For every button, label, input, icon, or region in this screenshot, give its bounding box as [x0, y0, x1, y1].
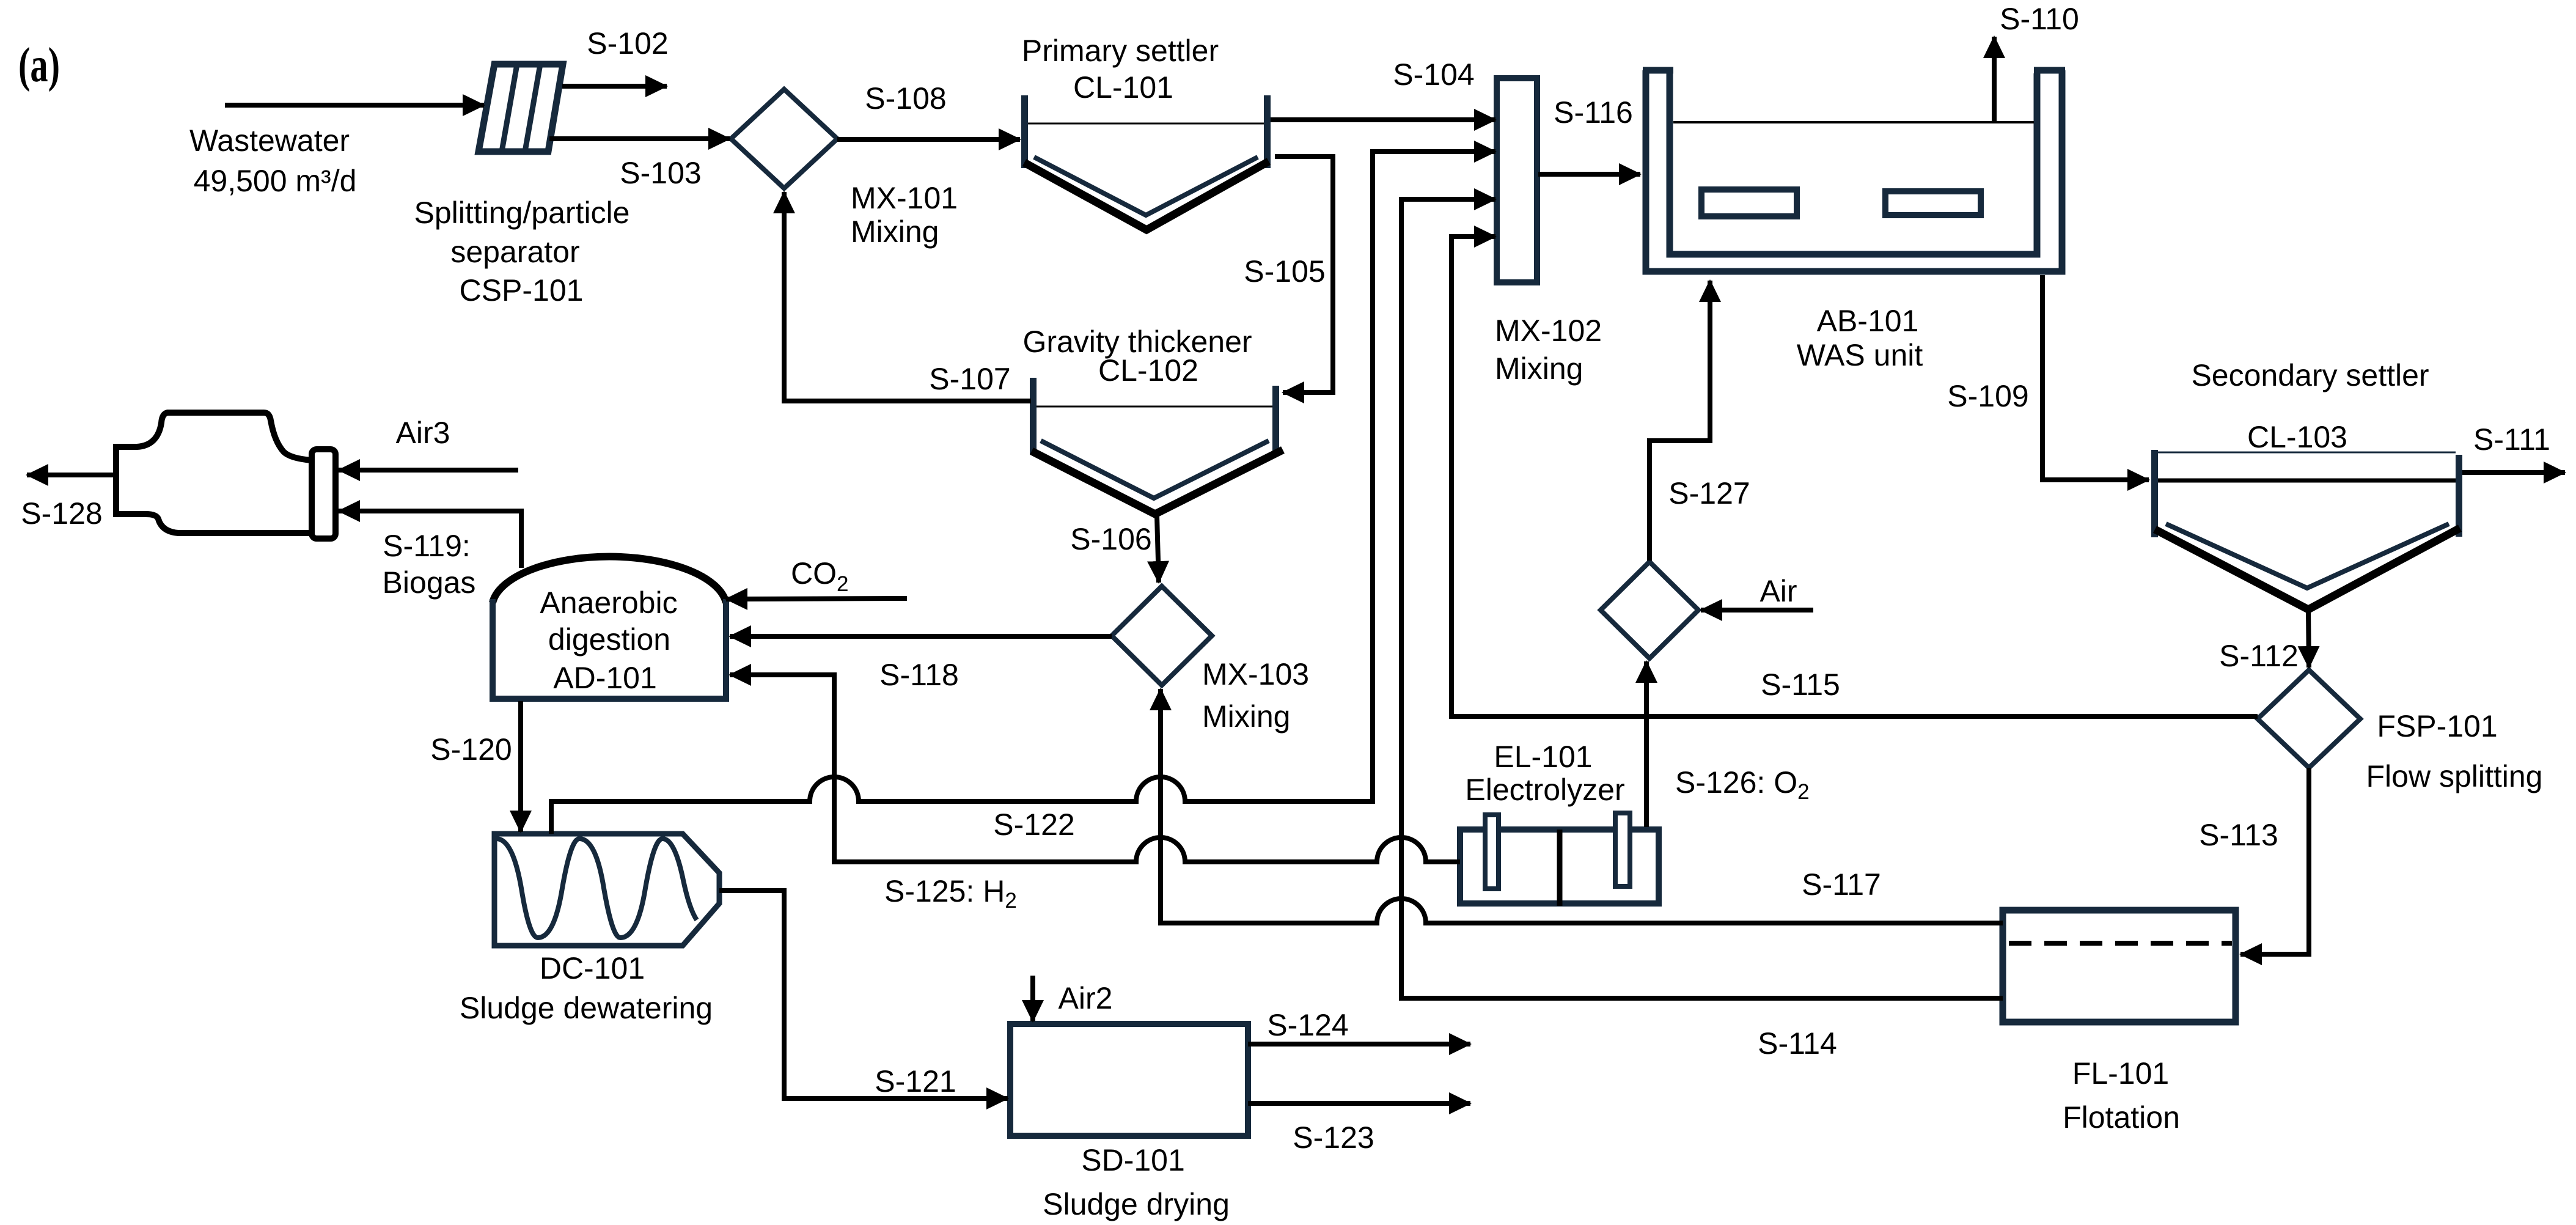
svg-text:Secondary settler: Secondary settler — [2191, 358, 2429, 392]
svg-text:Mixing: Mixing — [851, 215, 939, 249]
svg-text:S-119:: S-119: — [383, 529, 471, 563]
wire S-112 — [2308, 611, 2309, 668]
svg-text:Primary settler: Primary settler — [1022, 34, 1219, 68]
svg-text:S-122: S-122 — [993, 807, 1074, 842]
svg-text:CL-102: CL-102 — [1098, 353, 1198, 388]
aeration basin AB-101 — [1643, 70, 2065, 271]
wire S-117 — [1161, 689, 2003, 923]
svg-text:Anaerobic: Anaerobic — [540, 586, 677, 620]
wire S-120 — [518, 701, 523, 832]
svg-text:S-107: S-107 — [929, 362, 1010, 396]
wire S-106 — [1157, 516, 1159, 583]
wire S-124 — [1248, 1042, 1470, 1047]
svg-text:S-109: S-109 — [1947, 379, 2028, 413]
svg-text:MX-101: MX-101 — [851, 181, 958, 215]
svg-text:Biogas: Biogas — [383, 565, 476, 600]
svg-text:Mixing: Mixing — [1202, 699, 1290, 734]
svg-text:CSP-101: CSP-101 — [460, 273, 584, 307]
wire S-110 — [1992, 37, 1997, 121]
wire S-121 — [719, 891, 1008, 1098]
svg-text:S-117: S-117 — [1802, 867, 1881, 902]
svg-text:Splitting/particle: Splitting/particle — [414, 196, 630, 230]
svg-text:Air3: Air3 — [396, 416, 450, 450]
electrolyzer EL-101 — [1460, 813, 1659, 906]
svg-text:S-114: S-114 — [1758, 1026, 1837, 1061]
svg-text:S-115: S-115 — [1761, 668, 1840, 702]
screw press DC-101 — [494, 834, 719, 946]
wire S-122 — [551, 152, 1495, 834]
wire Air3 inlet — [339, 468, 518, 473]
svg-text:S-106: S-106 — [1070, 522, 1151, 556]
svg-text:AB-101: AB-101 — [1817, 304, 1919, 338]
svg-text:S-125: H2: S-125: H2 — [884, 874, 1017, 913]
mixer MX-102 — [1497, 78, 1537, 282]
AB-101 paddle 2 — [1885, 191, 1981, 215]
svg-text:FSP-101: FSP-101 — [2377, 709, 2497, 743]
wire S-116 — [1538, 172, 1640, 177]
wire S-113 — [2240, 768, 2309, 954]
svg-text:S-105: S-105 — [1244, 254, 1325, 289]
svg-text:Air2: Air2 — [1059, 981, 1113, 1015]
svg-text:CL-103: CL-103 — [2247, 420, 2347, 454]
wire S-127 — [1649, 281, 1710, 561]
svg-text:S-123: S-123 — [1293, 1120, 1374, 1155]
svg-text:S-113: S-113 — [2199, 818, 2278, 852]
gas engine plate — [312, 449, 336, 539]
flotation FL-101 — [2003, 910, 2236, 1022]
svg-text:49,500 m³/d: 49,500 m³/d — [194, 164, 357, 198]
gas engine — [116, 413, 312, 533]
thickener CL-102 — [1030, 378, 1283, 514]
svg-text:MX-103: MX-103 — [1202, 657, 1309, 691]
svg-text:Flow splitting: Flow splitting — [2366, 759, 2543, 793]
dryer SD-101 — [1010, 1024, 1248, 1136]
svg-text:separator: separator — [450, 235, 579, 269]
svg-text:S-118: S-118 — [879, 658, 959, 692]
wire Wastewater inlet — [225, 103, 484, 108]
svg-text:S-112: S-112 — [2219, 639, 2299, 673]
svg-text:AD-101: AD-101 — [553, 661, 657, 695]
svg-text:WAS unit: WAS unit — [1797, 338, 1923, 372]
wire S-128 — [27, 473, 116, 477]
wire S-114 — [1401, 199, 2003, 998]
svg-text:S-124: S-124 — [1267, 1008, 1348, 1042]
svg-text:S-121: S-121 — [875, 1064, 956, 1098]
svg-text:(a): (a) — [18, 39, 60, 92]
wire S-126 O2 — [1644, 661, 1649, 827]
svg-text:Flotation: Flotation — [2063, 1100, 2180, 1135]
mixer MX-103 — [1112, 586, 1212, 685]
svg-text:Air: Air — [1760, 574, 1797, 608]
svg-text:S-108: S-108 — [865, 81, 946, 116]
wire S-109 — [2042, 275, 2149, 480]
air mixer — [1601, 562, 1698, 658]
svg-text:S-116: S-116 — [1554, 95, 1633, 130]
wire Air2 inlet — [1030, 976, 1035, 1021]
svg-text:S-126: O2: S-126: O2 — [1675, 765, 1810, 804]
AB-101 paddle 1 — [1701, 189, 1797, 216]
wire S-107 — [784, 192, 1031, 401]
digester AD-101 — [493, 557, 726, 699]
svg-text:S-102: S-102 — [587, 26, 668, 61]
clarifier CL-103 — [2151, 450, 2462, 609]
svg-text:SD-101: SD-101 — [1081, 1143, 1185, 1177]
svg-text:EL-101: EL-101 — [1494, 740, 1592, 774]
svg-text:S-111: S-111 — [2473, 422, 2550, 457]
splitter FSP-101 — [2258, 670, 2360, 768]
svg-text:DC-101: DC-101 — [540, 951, 645, 985]
wire S-102 — [562, 84, 667, 89]
svg-text:S-127: S-127 — [1668, 476, 1750, 510]
wire S-119 biogas — [339, 511, 521, 568]
svg-text:Mixing: Mixing — [1495, 351, 1583, 386]
wire S-125 — [730, 675, 1460, 862]
svg-text:S-128: S-128 — [21, 496, 102, 531]
wire S-108 — [837, 137, 1020, 142]
separator CSP-101 — [479, 64, 563, 152]
wire S-118 — [730, 634, 1112, 639]
svg-text:CL-101: CL-101 — [1073, 70, 1173, 105]
svg-text:MX-102: MX-102 — [1495, 314, 1602, 348]
wire S-115 — [1451, 237, 2258, 716]
svg-text:S-104: S-104 — [1393, 57, 1474, 92]
svg-text:Electrolyzer: Electrolyzer — [1465, 773, 1624, 807]
wire S-123 — [1248, 1101, 1470, 1106]
wire S-104 — [1271, 117, 1495, 122]
wire S-111 — [2462, 470, 2565, 475]
svg-text:S-110: S-110 — [2000, 2, 2079, 36]
wire Air inlet — [1701, 608, 1813, 612]
wire CO2 inlet — [726, 598, 907, 599]
svg-text:Sludge drying: Sludge drying — [1043, 1187, 1230, 1221]
svg-text:S-103: S-103 — [620, 156, 701, 190]
svg-text:digestion: digestion — [548, 622, 670, 657]
svg-text:Sludge dewatering: Sludge dewatering — [460, 991, 713, 1025]
wire S-105 — [1275, 156, 1333, 392]
wire S-103 — [549, 136, 730, 141]
clarifier CL-101 — [1021, 95, 1271, 230]
svg-text:Wastewater: Wastewater — [189, 123, 350, 158]
svg-text:S-120: S-120 — [430, 732, 512, 767]
AB-101 water line — [1673, 121, 2034, 123]
mixer MX-101 — [731, 89, 837, 188]
svg-text:FL-101: FL-101 — [2072, 1056, 2169, 1091]
